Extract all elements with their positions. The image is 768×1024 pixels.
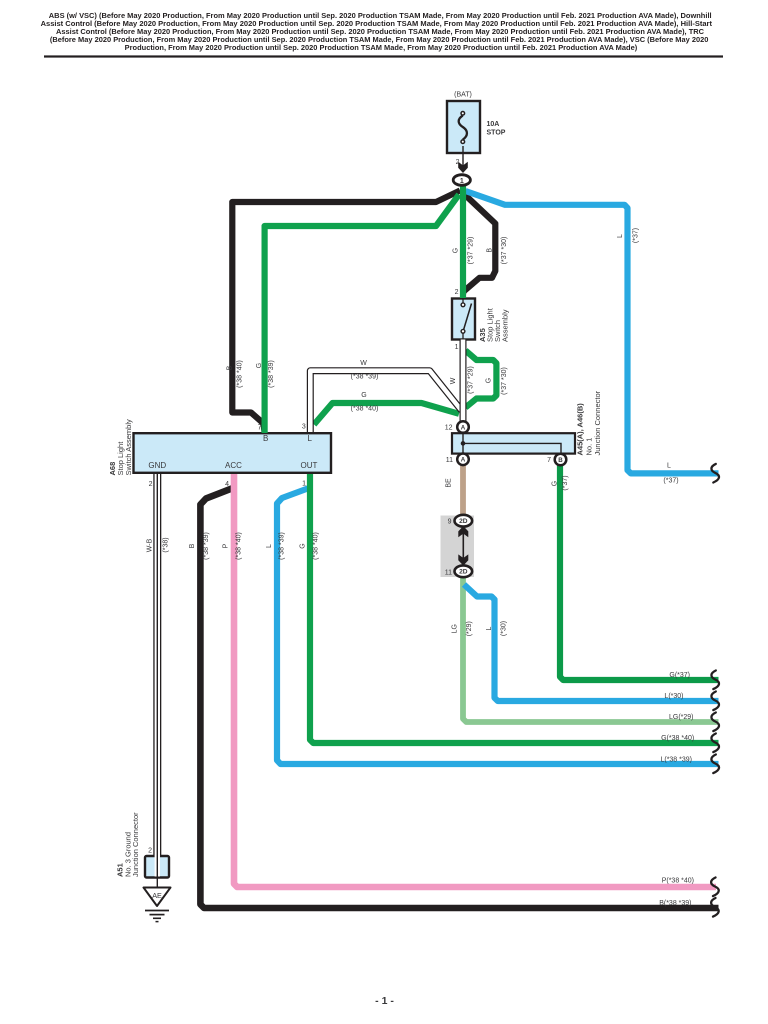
label A68 Stop Light Switch Assembly — [108, 419, 133, 476]
svg-text:1: 1 — [455, 344, 459, 351]
svg-text:(*38 *40): (*38 *40) — [351, 406, 379, 413]
svg-text:(*38): (*38) — [163, 537, 170, 552]
svg-text:(*38 *39): (*38 *39) — [278, 532, 285, 560]
svg-text:12: 12 — [445, 425, 453, 432]
svg-text:(*37 *30): (*37 *30) — [501, 237, 508, 265]
svg-text:G: G — [256, 363, 263, 368]
wire W from A35 pin 1 to node A (white, casing) — [460, 340, 467, 424]
svg-text:B: B — [263, 434, 268, 443]
wire W-B from A68 GND through A51 to ground (white-black casing) — [153, 474, 161, 887]
node 1 (from fuse) — [453, 175, 470, 186]
shielding gray box — [441, 516, 475, 578]
svg-text:4: 4 — [225, 481, 229, 488]
svg-text:G: G — [552, 481, 559, 486]
svg-text:(*38 *39): (*38 *39) — [351, 374, 379, 381]
svg-text:G: G — [300, 543, 307, 548]
svg-text:2: 2 — [148, 848, 152, 855]
svg-text:G: G — [452, 248, 459, 253]
wire P from A68 ACC to right edge (pink) — [234, 474, 716, 887]
svg-text:L: L — [307, 434, 312, 443]
header title text — [41, 13, 713, 52]
svg-text:G: G — [361, 392, 366, 399]
svg-text:OUT: OUT — [301, 461, 318, 470]
header rule — [44, 55, 723, 57]
svg-text:(*37 *29): (*37 *29) — [468, 237, 475, 265]
fuse element symbol — [459, 112, 467, 144]
svg-text:1: 1 — [302, 481, 306, 488]
node A (11) — [457, 454, 469, 466]
svg-text:- 1 -: - 1 - — [375, 995, 394, 1007]
svg-text:(*29): (*29) — [466, 621, 473, 636]
junction connector A45/A46 box — [452, 433, 575, 453]
svg-text:(*30): (*30) — [501, 621, 508, 636]
fuse F1 10A STOP box — [447, 101, 480, 153]
svg-text:11: 11 — [446, 457, 453, 464]
svg-text:Switch Assembly: Switch Assembly — [124, 419, 133, 476]
label B (*38 *39) on black wire — [189, 532, 210, 560]
svg-text:B: B — [558, 457, 563, 464]
wire L from A68 OUT pin 1 down to right edge (blue, *38 *39) — [277, 488, 719, 764]
break symbol on wire G (*37) — [711, 671, 719, 690]
label L (*30) on blue branch wire — [486, 621, 507, 636]
break symbol on wire L (*37) — [711, 464, 719, 483]
node 2D (11) — [455, 565, 473, 577]
svg-text:(Before May 2020 Production, F: (Before May 2020 Production, From May 20… — [50, 37, 709, 44]
wire G from node 1 to A68 pin 7 (green) — [265, 195, 459, 434]
svg-text:W: W — [360, 360, 367, 367]
svg-text:2D: 2D — [459, 518, 468, 525]
label G (*37) below node B — [552, 475, 570, 490]
A51 ground junction connector box — [145, 856, 169, 878]
label G (*37 *30) on green bump wire — [485, 367, 507, 395]
svg-text:2: 2 — [149, 481, 153, 488]
svg-text:B(*38 *39): B(*38 *39) — [659, 900, 691, 907]
svg-text:L: L — [617, 234, 624, 238]
svg-text:STOP: STOP — [487, 129, 506, 136]
svg-text:P(*38 *40): P(*38 *40) — [662, 878, 694, 885]
wire G node 1 to A35 pin 2 (green) — [460, 185, 466, 298]
svg-text:L(*38 *39): L(*38 *39) — [660, 756, 692, 763]
svg-text:A: A — [461, 457, 466, 464]
wire L branch from LG to right edge (blue, *30) — [464, 585, 719, 702]
svg-text:(*37): (*37) — [633, 228, 640, 243]
svg-text:Assembly: Assembly — [501, 309, 510, 342]
label A35 Stop Light Switch Assembly — [478, 307, 510, 342]
label 10A STOP — [487, 121, 506, 136]
svg-text:(*38 *40): (*38 *40) — [313, 532, 320, 560]
label A45(A), A46(B) No. 1 Junction Connector — [576, 390, 603, 455]
break symbol on wire P (*38 *40) — [711, 878, 719, 897]
svg-text:3: 3 — [302, 424, 306, 431]
svg-text:LG: LG — [452, 624, 459, 633]
label B (*37 *30) on black bump wire — [487, 237, 509, 265]
wire BE node A11 to node 2D9 (beige) — [460, 465, 466, 514]
node A (12) — [457, 421, 469, 433]
svg-text:P: P — [223, 543, 230, 548]
break symbol on wire L (*30) — [711, 692, 719, 711]
svg-text:10A: 10A — [487, 121, 500, 128]
break symbol on wire L (*38 *39) — [711, 755, 719, 774]
wire G jog from A68 pin 3 to node A (green, *38 *40) — [314, 403, 459, 425]
wire W jog from A68 pin 3 to node A (white, casing) — [310, 371, 461, 432]
svg-text:GND: GND — [148, 461, 166, 470]
node B (7) — [555, 454, 567, 466]
svg-text:1: 1 — [460, 178, 464, 185]
wire G bump A35 pin1 to node A (green, *37 *30) — [466, 351, 497, 408]
svg-text:(*37 *29): (*37 *29) — [468, 366, 475, 394]
svg-text:B: B — [189, 543, 196, 548]
A68 stop light switch assembly box — [134, 433, 332, 473]
svg-text:ABS (w/ VSC) (Before May 2020: ABS (w/ VSC) (Before May 2020 Production… — [49, 13, 712, 20]
label B (*38 *40) on left black wire — [226, 360, 243, 388]
wire G from A68 OUT pin 1 down to right edge (green, *38 *40) — [310, 474, 719, 743]
break symbol on wire LG (*29) — [711, 713, 719, 732]
ground symbol triangle AE — [144, 888, 171, 907]
svg-text:L: L — [486, 626, 493, 630]
svg-text:L(*30): L(*30) — [664, 693, 683, 700]
label G (*38 *40) on green wire — [300, 532, 320, 560]
svg-text:11: 11 — [445, 570, 452, 577]
gray box arrows between 2D nodes — [458, 526, 468, 566]
label L (*37) on blue wire right — [617, 228, 640, 243]
svg-text:W-B: W-B — [147, 538, 154, 552]
node 2D (9) — [455, 515, 473, 527]
svg-text:Junction Connector: Junction Connector — [131, 812, 140, 877]
svg-text:2: 2 — [455, 289, 459, 296]
svg-text:A45(A), A46(B): A45(A), A46(B) — [576, 403, 585, 456]
svg-text:G(*38 *40): G(*38 *40) — [661, 735, 694, 742]
label G (*38 *40) on jog wire — [351, 392, 379, 412]
label LG (*29) on light green wire — [452, 621, 474, 636]
svg-text:B: B — [226, 365, 233, 370]
svg-text:Assist Control (Before May 202: Assist Control (Before May 2020 Producti… — [56, 29, 704, 36]
svg-text:9: 9 — [448, 518, 452, 525]
wire LG from node 2D11 down to right edge (light green) — [463, 578, 719, 722]
label G (*38 *39) on left green wire — [256, 360, 275, 388]
svg-text:G(*37): G(*37) — [669, 672, 690, 679]
svg-text:AE: AE — [152, 891, 162, 900]
wire L from node 1 to right edge (blue) — [466, 191, 719, 473]
ground symbol earth lines — [145, 911, 169, 922]
svg-text:(*37): (*37) — [562, 475, 569, 490]
svg-text:LG(*29): LG(*29) — [669, 714, 694, 721]
svg-text:L: L — [667, 463, 671, 470]
svg-text:B: B — [487, 248, 494, 253]
svg-text:(*38 *40): (*38 *40) — [237, 360, 244, 388]
label P (*38 *40) on pink wire — [223, 532, 243, 560]
svg-text:Assist Control (Before May 202: Assist Control (Before May 2020 Producti… — [41, 21, 713, 28]
svg-text:W: W — [450, 377, 457, 384]
svg-text:2D: 2D — [459, 569, 468, 576]
label L (*38 *39) on blue wire — [266, 532, 285, 560]
svg-text:(*38 *39): (*38 *39) — [268, 360, 275, 388]
label G (*37 *29) on node1-A35 wire — [452, 237, 474, 265]
junction connector internal bus — [461, 430, 561, 456]
arrowhead into node 1 — [458, 162, 468, 173]
svg-text:G: G — [485, 378, 492, 383]
label W (*38 *39) on jog wire — [351, 360, 379, 381]
break symbol on wire G (*38 *40) — [711, 734, 719, 753]
svg-text:(BAT): (BAT) — [454, 92, 472, 99]
svg-text:BE: BE — [446, 478, 453, 488]
break symbol on wire B (*38 *39) — [711, 898, 719, 917]
A35 stop light switch assembly box — [452, 299, 475, 340]
svg-text:Production, From May 2020 Prod: Production, From May 2020 Production unt… — [125, 45, 638, 52]
svg-text:L: L — [266, 544, 273, 548]
label W-B (*38) on ground wire — [147, 537, 170, 552]
svg-text:A: A — [461, 424, 466, 431]
svg-text:(*38 *40): (*38 *40) — [235, 532, 242, 560]
wire B bump node1 to A35 pin 2 (black) — [463, 193, 496, 295]
svg-text:Junction Connector: Junction Connector — [593, 390, 602, 455]
svg-text:(*38 *39): (*38 *39) — [203, 532, 210, 560]
svg-text:7: 7 — [547, 457, 551, 464]
svg-text:(*37 *30): (*37 *30) — [501, 367, 508, 395]
wire G from node B7 down to right edge (green, *37) — [560, 466, 719, 681]
label A51 No. 3 Ground Junction Connector — [116, 812, 141, 877]
svg-text:7: 7 — [258, 425, 262, 432]
wire fuse lead down — [462, 146, 464, 168]
wire B from node 1 to A68 pin 7 (black) — [232, 191, 460, 434]
A35 switch symbol — [461, 298, 471, 339]
svg-text:ACC: ACC — [225, 461, 242, 470]
svg-text:(*37): (*37) — [663, 478, 678, 485]
wire B from A68 ACC pin 4 to right edge (black, *38 *39) — [200, 488, 718, 908]
label W (*37 *29) on A35-nodeA wire — [450, 366, 475, 394]
